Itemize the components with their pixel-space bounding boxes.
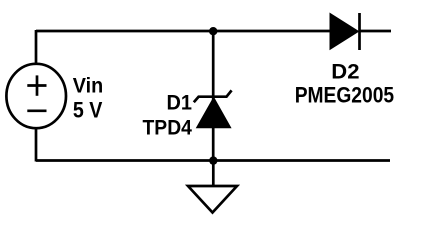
svg-text:5 V: 5 V — [73, 98, 103, 123]
node junction top — [209, 27, 217, 35]
wire top horizontal — [36, 30, 330, 33]
diode D1 zener bar with bent ends — [194, 90, 232, 102]
diode D2 triangle — [330, 13, 359, 49]
wire left vertical bottom — [35, 128, 38, 162]
ground stub wire — [212, 161, 215, 187]
wire left vertical top — [35, 30, 38, 65]
svg-text:TPD4: TPD4 — [143, 115, 193, 139]
ground triangle — [188, 186, 237, 213]
diode D2 cathode bar — [358, 13, 361, 50]
voltage source minus sign — [27, 109, 46, 112]
svg-text:D2: D2 — [331, 60, 359, 84]
wire top right of D2 — [360, 30, 391, 33]
voltage source Vin circle — [6, 64, 66, 128]
svg-text:Vin: Vin — [73, 74, 103, 98]
svg-text:D1: D1 — [167, 91, 193, 115]
diode D1 TVS triangle — [197, 98, 230, 128]
voltage source plus sign — [27, 75, 46, 95]
wire middle vertical — [212, 31, 215, 161]
wire bottom horizontal — [36, 159, 390, 162]
svg-text:PMEG2005: PMEG2005 — [295, 83, 394, 108]
node junction bottom — [209, 156, 217, 164]
